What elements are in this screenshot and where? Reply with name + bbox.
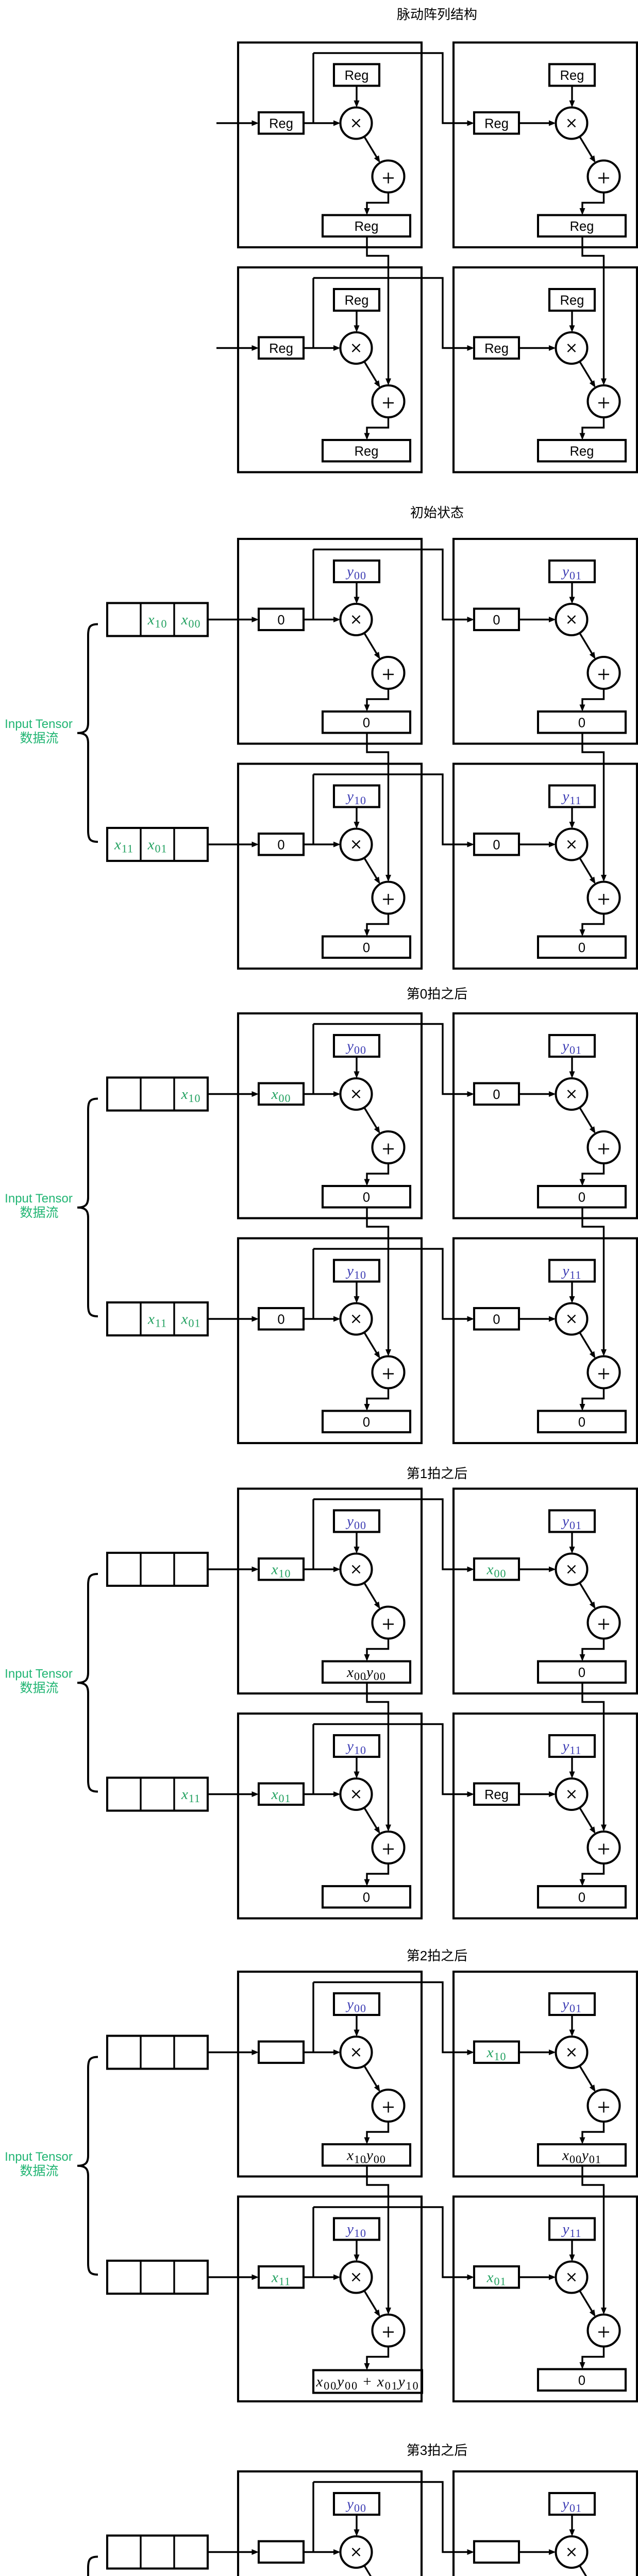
input reg S5R1C2 (474, 2042, 519, 2063)
output reg S5R1C2 (538, 2144, 626, 2166)
weight reg S1R1C1 (334, 64, 379, 86)
multiplier S1R2C1 (341, 332, 372, 364)
wire psum to row2 adder S4R1C2 (582, 1683, 607, 1832)
wire weight to multiplier S2R2C1 (354, 807, 360, 829)
wire reg to multiplier S4R2C2 (519, 1791, 556, 1797)
wire psum to row2 adder S3R1C1 (367, 1208, 391, 1357)
PE cell S1R1C1 outline (238, 43, 422, 248)
input reg S3R1C2 (474, 1083, 519, 1105)
input tensor buffer S2 row2 (107, 828, 208, 861)
wire multiplier to adder S4R1C1 (364, 1583, 380, 1609)
svg-text:数据流: 数据流 (20, 1681, 58, 1695)
input reg S2R2C2 (474, 834, 519, 855)
weight reg S2R2C1 (334, 786, 379, 807)
multiplier S2R2C1 (341, 829, 372, 860)
input tensor buffer S2 row1 (107, 603, 208, 636)
wire reg to multiplier S1R1C1 (304, 121, 341, 126)
weight reg S1R1C2 (549, 64, 595, 86)
svg-text:数据流: 数据流 (20, 2164, 58, 2178)
wire input arrow S2 row1 (208, 617, 259, 622)
svg-text:Reg: Reg (345, 294, 369, 308)
input reg S2R1C2 (474, 609, 519, 631)
wire psum to row2 adder S2R1C1 (367, 733, 391, 882)
output reg S5R2C1 (313, 2370, 422, 2393)
input reg S4R1C1 (259, 1558, 304, 1580)
adder S1R2C1 (373, 385, 405, 417)
wire psum to row2 adder S5R1C1 (367, 2166, 391, 2315)
PE cell S3R1C2 outline (454, 1013, 637, 1218)
weight reg S3R2C1 (334, 1260, 379, 1282)
wire weight to multiplier S3R2C2 (569, 1282, 575, 1303)
input brace S2 (77, 624, 98, 842)
adder S2R2C2 (588, 882, 620, 914)
weight reg S2R1C1 (334, 561, 379, 582)
weight reg S3R1C2 (549, 1035, 595, 1057)
wire x to next column S2R1C1 (313, 550, 474, 623)
adder S4R2C1 (373, 1832, 405, 1863)
multiplier S2R1C2 (556, 604, 587, 635)
PE cell S6R1C1 outline (238, 2471, 422, 2576)
wire reg to multiplier S1R2C1 (304, 345, 341, 351)
adder S2R2C1 (373, 882, 405, 914)
wire multiplier to adder S2R2C2 (580, 858, 596, 884)
wire multiplier to adder S5R2C2 (580, 2291, 596, 2317)
svg-text:Reg: Reg (355, 219, 379, 234)
wire x to next column S1R1C1 (313, 53, 474, 126)
wire reg to multiplier S2R1C2 (519, 617, 556, 622)
weight reg S1R2C2 (549, 289, 595, 311)
svg-text:0: 0 (363, 1190, 370, 1205)
input reg S6R1C1 (259, 2541, 304, 2563)
input tensor buffer S4 row1 (107, 1553, 208, 1586)
weight reg S3R1C1 (334, 1035, 379, 1057)
wire multiplier to adder S2R2C1 (364, 858, 380, 884)
output reg S2R1C2 (538, 711, 626, 733)
wire adder to output reg S3R1C2 (580, 1163, 604, 1186)
adder S4R2C2 (588, 1832, 620, 1863)
multiplier S6R1C2 (556, 2536, 587, 2568)
label Input Tensor S4 (5, 1667, 73, 1695)
svg-text:Reg: Reg (560, 294, 584, 308)
svg-text:第3拍之后: 第3拍之后 (407, 2443, 467, 2458)
section 6 title (407, 2443, 467, 2458)
input tensor buffer S5 row2 (107, 2261, 208, 2294)
multiplier S2R2C2 (556, 829, 587, 860)
input tensor buffer S3 row1 (107, 1078, 208, 1111)
weight reg S5R2C1 (334, 2218, 379, 2240)
multiplier S5R1C1 (341, 2037, 372, 2068)
svg-text:Reg: Reg (484, 116, 509, 131)
weight reg S5R1C1 (334, 1993, 379, 2015)
wire x to next column S1R2C1 (313, 278, 474, 351)
svg-text:Input Tensor: Input Tensor (5, 2150, 73, 2164)
PE cell S1R2C1 outline (238, 267, 422, 472)
svg-text:0: 0 (277, 838, 284, 852)
input tensor buffer S3 row2 (107, 1302, 208, 1335)
wire x pass-through riser S6R1C1 (312, 2482, 314, 2552)
section 4 title (407, 1466, 467, 1481)
input reg S1R2C2 (474, 337, 519, 359)
wire weight to multiplier S3R1C1 (354, 1057, 360, 1078)
output reg S2R1C1 (323, 711, 410, 733)
wire multiplier to adder S6R1C2 (580, 2566, 596, 2576)
wire adder to output reg S4R1C1 (364, 1639, 389, 1662)
input reg S6R1C2 (474, 2541, 519, 2563)
wire reg to multiplier S5R1C2 (519, 2049, 556, 2055)
adder S2R1C2 (588, 657, 620, 689)
svg-text:0: 0 (277, 1312, 284, 1327)
output reg S3R2C1 (323, 1411, 410, 1433)
wire weight to multiplier S3R1C2 (569, 1057, 575, 1078)
wire reg to multiplier S3R1C2 (519, 1091, 556, 1097)
wire reg to multiplier S5R1C1 (304, 2049, 341, 2055)
svg-text:0: 0 (578, 716, 585, 730)
wire weight to multiplier S1R1C2 (569, 86, 575, 108)
svg-text:Reg: Reg (570, 444, 594, 459)
svg-text:Reg: Reg (355, 444, 379, 459)
label Input Tensor S3 (5, 1192, 73, 1220)
wire weight to multiplier S6R1C1 (354, 2515, 360, 2536)
multiplier S2R1C1 (341, 604, 372, 635)
wire weight to multiplier S4R2C2 (569, 1757, 575, 1778)
weight reg S2R1C2 (549, 561, 595, 582)
multiplier S5R1C2 (556, 2037, 587, 2068)
wire weight to multiplier S2R1C2 (569, 582, 575, 604)
input reg S1R2C1 (259, 337, 304, 359)
wire reg to multiplier S3R2C2 (519, 1316, 556, 1322)
weight reg S6R1C1 (334, 2493, 379, 2515)
wire x to next column S5R1C1 (313, 1982, 474, 2056)
wire multiplier to adder S3R2C1 (364, 1332, 380, 1359)
wire weight to multiplier S5R2C2 (569, 2240, 575, 2262)
input reg S2R2C1 (259, 834, 304, 855)
wire adder to output reg S2R2C1 (364, 914, 389, 937)
PE cell S1R2C2 outline (454, 267, 637, 472)
wire adder to output reg S3R1C1 (364, 1163, 389, 1186)
wire reg to multiplier S1R1C2 (519, 121, 556, 126)
wire x pass-through riser S1R2C1 (312, 278, 314, 348)
input reg S3R2C2 (474, 1308, 519, 1330)
wire psum to row2 adder S1R1C1 (367, 236, 391, 385)
wire weight to multiplier S5R1C1 (354, 2015, 360, 2037)
wire adder to output reg S5R2C2 (580, 2347, 604, 2369)
PE cell S4R2C2 outline (454, 1714, 637, 1919)
adder S5R2C1 (373, 2315, 405, 2347)
wire reg to multiplier S1R2C2 (519, 345, 556, 351)
svg-text:0: 0 (578, 1190, 585, 1205)
output reg S4R1C2 (538, 1662, 626, 1683)
svg-text:Reg: Reg (560, 69, 584, 83)
svg-text:0: 0 (493, 1312, 500, 1327)
multiplier S1R2C2 (556, 332, 587, 364)
wire x pass-through riser S5R1C1 (312, 1982, 314, 2053)
svg-text:Input Tensor: Input Tensor (5, 717, 73, 731)
wire input arrow S1 row2 (216, 345, 259, 351)
output reg S4R1C1 (323, 1662, 410, 1683)
PE cell S3R2C2 outline (454, 1239, 637, 1444)
wire x to next column S3R1C1 (313, 1024, 474, 1097)
wire multiplier to adder S2R1C2 (580, 633, 596, 659)
wire x pass-through riser S5R2C1 (312, 2207, 314, 2277)
wire multiplier to adder S1R2C2 (580, 362, 596, 388)
weight reg S4R1C1 (334, 1511, 379, 1532)
weight reg S4R1C2 (549, 1511, 595, 1532)
wire adder to output reg S2R1C1 (364, 689, 389, 711)
input brace S3 (77, 1099, 98, 1317)
wire adder to output reg S1R2C2 (580, 417, 604, 440)
output reg S5R1C1 (323, 2144, 410, 2166)
svg-text:0: 0 (363, 716, 370, 730)
wire x to next column S4R1C1 (313, 1499, 474, 1572)
PE cell S5R1C1 outline (238, 1972, 422, 2177)
output reg S3R1C1 (323, 1186, 410, 1208)
wire adder to output reg S5R2C1 (364, 2347, 389, 2370)
label Input Tensor S5 (5, 2150, 73, 2178)
adder S1R2C2 (588, 385, 620, 417)
output reg S4R2C2 (538, 1886, 626, 1908)
input reg S1R1C2 (474, 112, 519, 134)
wire weight to multiplier S4R1C1 (354, 1532, 360, 1554)
wire psum to row2 adder S1R1C2 (582, 236, 607, 385)
wire psum to row2 adder S4R1C1 (367, 1683, 391, 1832)
PE cell S2R2C2 outline (454, 764, 637, 969)
wire input arrow S6 row1 (208, 2549, 259, 2555)
wire adder to output reg S3R2C2 (580, 1388, 604, 1411)
wire multiplier to adder S1R1C2 (580, 137, 596, 163)
weight reg S3R2C2 (549, 1260, 595, 1282)
output reg S1R2C2 (538, 440, 626, 462)
svg-text:Reg: Reg (345, 69, 369, 83)
wire x pass-through riser S1R1C1 (312, 53, 314, 123)
wire adder to output reg S2R1C2 (580, 689, 604, 711)
wire weight to multiplier S5R1C2 (569, 2015, 575, 2037)
wire input arrow S3 row1 (208, 1091, 259, 1097)
svg-text:0: 0 (493, 613, 500, 628)
svg-text:0: 0 (578, 1666, 585, 1680)
adder S1R1C2 (588, 161, 620, 193)
wire reg to multiplier S2R2C2 (519, 842, 556, 848)
wire x pass-through riser S3R1C1 (312, 1024, 314, 1094)
input reg S3R2C1 (259, 1308, 304, 1330)
multiplier S5R2C1 (341, 2262, 372, 2293)
PE cell S6R1C2 outline (454, 2471, 637, 2576)
adder S1R1C1 (373, 161, 405, 193)
PE cell S5R2C1 outline (238, 2197, 422, 2402)
svg-text:0: 0 (578, 1890, 585, 1905)
wire reg to multiplier S3R2C1 (304, 1316, 341, 1322)
output reg S2R2C2 (538, 937, 626, 958)
adder S5R1C2 (588, 2090, 620, 2122)
wire weight to multiplier S5R2C1 (354, 2240, 360, 2262)
multiplier S5R2C2 (556, 2262, 587, 2293)
wire multiplier to adder S3R1C1 (364, 1108, 380, 1134)
weight reg S2R2C2 (549, 786, 595, 807)
wire multiplier to adder S4R2C1 (364, 1808, 380, 1834)
multiplier S1R1C1 (341, 108, 372, 139)
adder S3R1C2 (588, 1131, 620, 1163)
input brace S4 (77, 1574, 98, 1792)
wire x pass-through riser S2R2C1 (312, 774, 314, 844)
svg-text:0: 0 (578, 1415, 585, 1430)
input tensor buffer S6 row1 (107, 2536, 208, 2569)
multiplier S4R2C1 (341, 1778, 372, 1810)
input brace S6 (77, 2557, 98, 2576)
wire x to next column S5R2C1 (313, 2207, 474, 2280)
wire multiplier to adder S6R1C1 (364, 2566, 380, 2576)
multiplier S4R2C2 (556, 1778, 587, 1810)
svg-text:第0拍之后: 第0拍之后 (407, 986, 467, 1002)
wire reg to multiplier S4R1C2 (519, 1567, 556, 1572)
wire psum to row2 adder S3R1C2 (582, 1208, 607, 1357)
output reg S3R1C2 (538, 1186, 626, 1208)
adder S2R1C1 (373, 657, 405, 689)
svg-text:Input Tensor: Input Tensor (5, 1667, 73, 1681)
weight reg S1R2C1 (334, 289, 379, 311)
PE cell S5R2C2 outline (454, 2197, 637, 2402)
svg-text:Reg: Reg (484, 342, 509, 356)
wire multiplier to adder S5R1C2 (580, 2066, 596, 2092)
wire reg to multiplier S2R1C1 (304, 617, 341, 622)
weight reg S4R2C1 (334, 1735, 379, 1757)
wire x pass-through riser S4R2C1 (312, 1724, 314, 1794)
input reg S1R1C1 (259, 112, 304, 134)
wire adder to output reg S5R1C1 (364, 2122, 389, 2144)
section 5 title (407, 1948, 467, 1963)
adder S3R2C2 (588, 1357, 620, 1388)
wire reg to multiplier S2R2C1 (304, 842, 341, 848)
PE cell S3R1C1 outline (238, 1013, 422, 1218)
wire input arrow S5 row2 (208, 2275, 259, 2280)
section 1 title (397, 7, 477, 22)
svg-text:0: 0 (578, 941, 585, 955)
wire input arrow S4 row2 (208, 1791, 259, 1797)
wire reg to multiplier S6R1C2 (519, 2549, 556, 2555)
svg-text:Input Tensor: Input Tensor (5, 1192, 73, 1206)
wire weight to multiplier S3R2C1 (354, 1282, 360, 1303)
adder S4R1C1 (373, 1607, 405, 1639)
input reg S4R2C1 (259, 1784, 304, 1805)
output reg S1R1C2 (538, 215, 626, 237)
wire input arrow S4 row1 (208, 1567, 259, 1572)
multiplier S6R1C1 (341, 2536, 372, 2568)
output reg S1R1C1 (323, 215, 410, 237)
wire x to next column S2R2C1 (313, 774, 474, 848)
wire input arrow S1 row1 (216, 121, 259, 126)
svg-text:Reg: Reg (269, 116, 293, 131)
wire adder to output reg S1R2C1 (364, 417, 389, 440)
wire multiplier to adder S3R1C2 (580, 1108, 596, 1134)
wire x to next column S3R2C1 (313, 1249, 474, 1322)
adder S5R2C2 (588, 2315, 620, 2347)
adder S3R1C1 (373, 1131, 405, 1163)
svg-text:0: 0 (363, 1890, 370, 1905)
svg-text:0: 0 (277, 613, 284, 628)
section 2 title (410, 505, 464, 520)
wire multiplier to adder S2R1C1 (364, 633, 380, 659)
input reg S4R2C2 (474, 1784, 519, 1805)
output reg S5R2C2 (538, 2369, 626, 2391)
label Input Tensor S2 (5, 717, 73, 745)
wire weight to multiplier S1R2C1 (354, 311, 360, 332)
wire x pass-through riser S3R2C1 (312, 1249, 314, 1319)
svg-text:0: 0 (493, 838, 500, 852)
multiplier S3R1C2 (556, 1078, 587, 1110)
multiplier S4R1C2 (556, 1554, 587, 1585)
wire x pass-through riser S2R1C1 (312, 550, 314, 620)
PE cell S4R2C1 outline (238, 1714, 422, 1919)
weight reg S6R1C2 (549, 2493, 595, 2515)
wire multiplier to adder S5R1C1 (364, 2066, 380, 2092)
PE cell S2R1C1 outline (238, 539, 422, 744)
wire reg to multiplier S5R2C2 (519, 2275, 556, 2280)
wire adder to output reg S4R1C2 (580, 1639, 604, 1662)
input reg S2R1C1 (259, 609, 304, 631)
adder S3R2C1 (373, 1357, 405, 1388)
wire weight to multiplier S2R1C1 (354, 582, 360, 604)
weight reg S5R2C2 (549, 2218, 595, 2240)
PE cell S4R1C2 outline (454, 1489, 637, 1694)
output reg S3R2C2 (538, 1411, 626, 1433)
section 3 title (407, 986, 467, 1002)
input reg S4R1C2 (474, 1558, 519, 1580)
wire multiplier to adder S3R2C2 (580, 1332, 596, 1359)
multiplier S3R1C1 (341, 1078, 372, 1110)
svg-text:0: 0 (363, 1415, 370, 1430)
multiplier S3R2C2 (556, 1303, 587, 1335)
input tensor buffer S4 row2 (107, 1778, 208, 1811)
wire reg to multiplier S6R1C1 (304, 2549, 341, 2555)
svg-text:0: 0 (493, 1088, 500, 1102)
wire adder to output reg S3R2C1 (364, 1388, 389, 1411)
svg-text:数据流: 数据流 (20, 1206, 58, 1220)
adder S4R1C2 (588, 1607, 620, 1639)
wire reg to multiplier S5R2C1 (304, 2275, 341, 2280)
wire weight to multiplier S4R1C2 (569, 1532, 575, 1554)
svg-text:Reg: Reg (570, 219, 594, 234)
PE cell S1R1C2 outline (454, 43, 637, 248)
wire adder to output reg S1R1C1 (364, 193, 389, 215)
wire reg to multiplier S4R2C1 (304, 1791, 341, 1797)
svg-text:数据流: 数据流 (20, 731, 58, 745)
PE cell S3R2C1 outline (238, 1239, 422, 1444)
wire adder to output reg S4R2C2 (580, 1863, 604, 1886)
wire adder to output reg S5R1C2 (580, 2122, 604, 2144)
wire weight to multiplier S6R1C2 (569, 2515, 575, 2536)
adder S5R1C1 (373, 2090, 405, 2122)
wire reg to multiplier S4R1C1 (304, 1567, 341, 1572)
wire multiplier to adder S4R2C2 (580, 1808, 596, 1834)
wire multiplier to adder S4R1C2 (580, 1583, 596, 1609)
input brace S5 (77, 2057, 98, 2275)
weight reg S5R1C2 (549, 1993, 595, 2015)
wire weight to multiplier S1R2C2 (569, 311, 575, 332)
wire weight to multiplier S1R1C1 (354, 86, 360, 108)
wire x to next column S4R2C1 (313, 1724, 474, 1798)
wire multiplier to adder S1R1C1 (364, 137, 380, 163)
svg-text:0: 0 (363, 941, 370, 955)
svg-text:脉动阵列结构: 脉动阵列结构 (397, 7, 477, 22)
output reg S4R2C1 (323, 1886, 410, 1908)
wire psum to row2 adder S5R1C2 (582, 2166, 607, 2315)
wire multiplier to adder S5R2C1 (364, 2291, 380, 2317)
multiplier S1R1C2 (556, 108, 587, 139)
input tensor buffer S5 row1 (107, 2036, 208, 2069)
svg-text:0: 0 (578, 2374, 585, 2388)
input reg S5R2C1 (259, 2266, 304, 2288)
svg-text:Reg: Reg (269, 342, 293, 356)
PE cell S5R1C2 outline (454, 1972, 637, 2177)
weight reg S4R2C2 (549, 1735, 595, 1757)
